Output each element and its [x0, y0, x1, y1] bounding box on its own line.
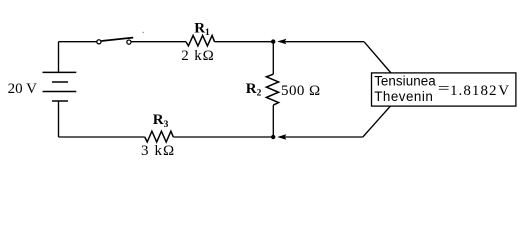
resistor R2 zigzag (vertical): [266, 74, 278, 105]
svg-text:R3: R3: [153, 112, 169, 130]
callout line top diagonal: [364, 42, 391, 73]
dust speck: [143, 32, 145, 33]
arrowhead top (points at node A): [277, 39, 286, 45]
svg-text:=: =: [438, 81, 450, 97]
wire bottom-left horizontal: [59, 136, 145, 138]
battery B1 20V: long plate 1: [43, 71, 77, 73]
battery long plate 2: [43, 91, 77, 93]
wire top-left horizontal: [59, 41, 98, 43]
wire R3 to node B: [173, 136, 273, 138]
svg-text:Tensiunea: Tensiunea: [374, 74, 436, 89]
callout line bottom horizontal: [285, 136, 363, 138]
svg-text:20 V: 20 V: [8, 81, 37, 97]
battery short plate 1: [52, 81, 68, 83]
battery short plate 2: [52, 100, 68, 102]
svg-text:V: V: [498, 83, 509, 99]
callout box Tensiunea Thevenin: [372, 73, 516, 106]
switch SW1 left contact circle: [97, 40, 101, 44]
svg-text:R2: R2: [246, 81, 262, 99]
resistor R1 zigzag: [186, 35, 215, 46]
callout line bottom diagonal: [363, 106, 391, 137]
svg-text:2 kΩ: 2 kΩ: [181, 48, 215, 64]
svg-text:3 kΩ: 3 kΩ: [141, 143, 175, 159]
callout line top horizontal: [285, 41, 364, 43]
wire switch to R1: [131, 41, 186, 43]
arrowhead bottom (points at node B): [277, 134, 286, 140]
switch SW1 right contact circle: [127, 40, 131, 44]
svg-text:R1: R1: [194, 20, 210, 38]
wire left vertical lower: [58, 101, 60, 137]
svg-text:500 Ω: 500 Ω: [281, 83, 321, 99]
switch SW1 blade: [101, 38, 133, 41]
node B dot (bottom of R2): [271, 135, 275, 139]
wire R1 to node A: [215, 41, 274, 43]
node A dot (top of R2): [271, 39, 275, 43]
wire R2 down to node B: [272, 105, 274, 137]
svg-text:Thevenin: Thevenin: [374, 89, 433, 104]
svg-text:1.8182: 1.8182: [450, 83, 498, 99]
wire node A down to R2: [272, 42, 274, 74]
resistor R3 zigzag: [145, 131, 174, 142]
wire left vertical upper (to battery top plate): [58, 42, 60, 73]
